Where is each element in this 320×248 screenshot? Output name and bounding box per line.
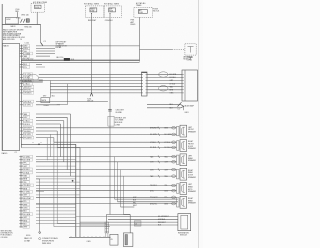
svg-text:SPEAKER: SPEAKER xyxy=(188,159,197,162)
inline connector symbol on W2 xyxy=(108,109,112,111)
fuse block F1 (top-left dashed box) xyxy=(31,4,44,13)
wire vertical drop x80 xyxy=(79,148,81,238)
svg-text:DK GRN: DK GRN xyxy=(164,134,171,136)
wire BLK to rear module xyxy=(80,224,178,226)
pin wire DK BLU speaker feed xyxy=(20,123,23,125)
connector C2 vertical box xyxy=(142,72,148,96)
svg-text:YEL/BLK: YEL/BLK xyxy=(24,131,32,133)
svg-text:YEL: YEL xyxy=(23,182,26,184)
pin B1 wire GRY/BLK to splice xyxy=(20,101,23,103)
wire LT BLU to amp connector xyxy=(20,83,23,85)
pin wire WHT lower connector xyxy=(19,226,23,228)
pin A3 wire YEL xyxy=(20,50,23,52)
svg-text:GROUND 150: GROUND 150 xyxy=(22,59,33,61)
pin wire LT BLU lower connector xyxy=(19,172,23,174)
svg-text:AUDIO AMP: AUDIO AMP xyxy=(185,105,195,108)
pin wire DK BLU lower connector xyxy=(19,168,23,170)
svg-text:SPLICE: SPLICE xyxy=(87,101,94,103)
wire DK GRN to amp connector xyxy=(20,73,23,75)
pin wire BRN lower connector xyxy=(19,178,23,180)
svg-text:SPEAKER: SPEAKER xyxy=(188,190,197,193)
twisted pair loop right upper xyxy=(159,72,168,77)
svg-text:LT GRN: LT GRN xyxy=(23,156,30,158)
svg-text:IN-LINE: IN-LINE xyxy=(116,112,123,114)
svg-text:DK BLU: DK BLU xyxy=(24,124,31,126)
wire ORG/BLK to amp connector xyxy=(20,92,23,94)
svg-text:FUSE: FUSE xyxy=(139,12,143,14)
wire bottom bus strip xyxy=(69,236,111,238)
wire DK GRN/WHT to rear module xyxy=(108,215,178,217)
svg-text:DETAIL: DETAIL xyxy=(56,46,62,49)
wire GRY/BLK C2 to amplifier xyxy=(147,80,182,82)
svg-text:LT GRN: LT GRN xyxy=(23,192,30,194)
wire bus vertical x117.5 xyxy=(117,162,119,202)
svg-text:BRN/YEL: BRN/YEL xyxy=(24,90,32,92)
svg-text:SPEAKER: SPEAKER xyxy=(188,130,197,133)
svg-text:SPEAKER: SPEAKER xyxy=(188,202,197,205)
pin wire YEL/BLK speaker feed xyxy=(20,130,23,132)
wire dashed antenna lead xyxy=(172,48,185,50)
svg-text:CONN: CONN xyxy=(187,59,193,61)
pin wire PPL lower connector xyxy=(19,200,23,202)
pin wire BLK/WHT lower connector xyxy=(19,197,23,199)
svg-text:AND SPLICES: AND SPLICES xyxy=(3,38,15,41)
svg-text:RED/WHT: RED/WHT xyxy=(158,222,166,224)
splice S201 arrow symbol xyxy=(90,93,91,96)
pin wire BLK lower connector xyxy=(19,210,23,212)
wire W3 from fuse C down xyxy=(139,17,141,61)
svg-text:HOT AT ALL TIMES: HOT AT ALL TIMES xyxy=(84,3,100,6)
wire branch v2 from LT BLU row down with elbow xyxy=(67,84,69,105)
speaker SP6 connector bar xyxy=(177,198,180,207)
pin wire BLK lower connector xyxy=(19,223,23,225)
wire bus out 2 xyxy=(118,201,178,203)
junction splice dot xyxy=(72,180,74,182)
wire ticks drop to bottom bus xyxy=(105,233,107,237)
wire amp ground branch 2 BLK xyxy=(147,107,181,109)
pin wire BRN/WHT speaker feed xyxy=(20,127,23,129)
wire BRN/YEL C2 to amplifier xyxy=(147,89,182,91)
svg-text:DK GRN/WHT: DK GRN/WHT xyxy=(158,216,169,218)
splice arrow below amp xyxy=(181,105,184,107)
wire elbow continuation x57.2 to bottom xyxy=(56,147,58,223)
svg-text:DK GRN: DK GRN xyxy=(24,74,32,76)
connector loop top wire SP4 xyxy=(172,168,176,171)
wire amp ground branch 1 BLK xyxy=(147,104,181,106)
svg-text:LT BLU: LT BLU xyxy=(23,172,30,174)
svg-text:RED 240: RED 240 xyxy=(24,26,31,28)
svg-text:DK GRN: DK GRN xyxy=(23,160,31,162)
connector loop top wire SP1 xyxy=(172,127,176,130)
ground distribution box G201 xyxy=(26,19,29,22)
svg-text:G301: G301 xyxy=(184,112,188,114)
pin wire TAN lower connector xyxy=(19,175,23,177)
svg-text:BLK 150: BLK 150 xyxy=(57,57,64,59)
wire heavy bus upper y60.2 xyxy=(21,59,139,61)
wire left page edge line xyxy=(1,4,3,151)
wire bus vertical x120.5 xyxy=(120,170,122,207)
wire main horizontal feed y24.5 xyxy=(2,24,40,26)
svg-text:RED/WHT: RED/WHT xyxy=(88,20,97,22)
pin wire BRN lower connector xyxy=(19,188,23,190)
twisted pair loop right lower xyxy=(159,86,168,91)
speaker SP5 connector bar xyxy=(177,184,180,193)
svg-text:GRY/BLK: GRY/BLK xyxy=(24,80,33,82)
svg-text:C1: C1 xyxy=(43,41,45,43)
svg-text:DK BLU: DK BLU xyxy=(23,169,30,171)
wire speaker 6 top long xyxy=(36,196,177,198)
wire elbow continuation x53.9 to bottom xyxy=(53,142,55,226)
svg-text:RADIO: RADIO xyxy=(3,44,9,47)
svg-text:PPL/WHT: PPL/WHT xyxy=(24,137,33,139)
speaker SP4 box xyxy=(180,168,187,180)
amplifier U2 box xyxy=(182,70,198,101)
wire BLK down to ground G200 xyxy=(36,178,40,180)
connector loop bottom wire SP2 xyxy=(172,146,176,149)
svg-text:HOT AT ALL TIMES: HOT AT ALL TIMES xyxy=(104,3,120,6)
rear integration module box xyxy=(178,214,191,231)
wire RED/WHT to rear module xyxy=(80,221,178,223)
speaker SP6 box xyxy=(180,196,187,208)
svg-text:DK GRN: DK GRN xyxy=(24,134,32,136)
wire speaker 5 bottom long xyxy=(36,190,177,192)
svg-text:PPL: PPL xyxy=(23,201,26,203)
svg-text:CONN: CONN xyxy=(115,124,121,126)
svg-text:YEL/BLK: YEL/BLK xyxy=(23,185,31,187)
wire W2 from fuse B down main vertical xyxy=(109,17,111,214)
wire branch vertical x50.5 xyxy=(50,134,52,157)
splice block S201 dark box xyxy=(64,58,70,60)
speaker SP3 connector bar xyxy=(177,155,180,164)
wire DK BLU to amp connector xyxy=(20,76,23,78)
speaker SP4 connector bar xyxy=(177,170,180,179)
connector symbol pair (slashes) C201 xyxy=(21,19,23,23)
connector ticks bottom left of loop xyxy=(105,222,109,233)
wire LT BLU C2 to amplifier xyxy=(147,83,182,85)
connector loop bottom wire SP3 xyxy=(172,161,176,164)
twisted pair shield loop xyxy=(28,74,38,81)
svg-text:BLK/WHT: BLK/WHT xyxy=(23,198,32,200)
wire TAN/WHT to amp connector xyxy=(20,86,23,88)
label gray box mid bottom xyxy=(134,221,141,226)
svg-text:ORG 140: ORG 140 xyxy=(21,15,29,17)
wire speaker 4 bottom long xyxy=(36,175,177,177)
connector loop bottom wire SP6 xyxy=(172,202,176,205)
wire bus out 4 xyxy=(124,214,131,216)
speaker SP5 box xyxy=(180,183,187,195)
svg-text:SPEAKER: SPEAKER xyxy=(188,176,197,179)
svg-text:BRN/WHT: BRN/WHT xyxy=(150,128,158,130)
svg-text:ORG: ORG xyxy=(23,208,28,210)
svg-text:C405: C405 xyxy=(87,241,91,243)
junction block box top-left xyxy=(6,17,19,24)
wire fuse F1 down drop xyxy=(36,12,38,24)
wire speaker 5 top long xyxy=(36,185,177,187)
wire DK BLU C2 to amplifier xyxy=(147,76,182,78)
svg-text:PPL: PPL xyxy=(24,67,27,69)
pin A2 wire ORG xyxy=(20,47,23,49)
wire loop bottom pi shape xyxy=(106,214,130,216)
svg-text:x: x xyxy=(33,142,34,144)
wire bus vertical x114.5 xyxy=(114,157,116,200)
pin wire LT GRN lower connector xyxy=(19,156,23,158)
wire fuse A drop xyxy=(91,14,93,18)
svg-text:LT BLU: LT BLU xyxy=(24,83,31,85)
svg-text:LT BLU: LT BLU xyxy=(24,120,31,122)
pin wire WHT lower connector xyxy=(19,204,23,206)
pin wire GRY speaker feed xyxy=(20,116,23,118)
fuse F1 xyxy=(34,5,41,8)
fuse F5 in box A xyxy=(90,8,97,12)
svg-text:JUNC: JUNC xyxy=(6,19,11,21)
svg-text:FEED: FEED xyxy=(131,24,136,26)
pin A7 wire xyxy=(20,66,23,68)
pin wire PPL lower connector xyxy=(19,162,23,164)
svg-text:14: 14 xyxy=(20,39,22,41)
radio unit U1 box outline xyxy=(2,44,19,151)
svg-text:TAN/WHT: TAN/WHT xyxy=(24,86,33,89)
svg-text:ORG: ORG xyxy=(170,93,175,95)
speaker SP2 box xyxy=(180,140,187,152)
wire branch vertical x47.2 xyxy=(46,138,48,161)
svg-text:DK GRN: DK GRN xyxy=(150,134,157,136)
svg-text:WIRE SIDE: WIRE SIDE xyxy=(42,243,52,245)
module box M2 bottom xyxy=(123,233,132,247)
svg-text:DK BLU: DK BLU xyxy=(170,77,177,79)
pin wire DK GRN lower connector xyxy=(19,159,23,161)
pin A6 wire BLK xyxy=(20,63,23,65)
wire DK GRN C2 to amplifier xyxy=(147,73,182,75)
wire speaker 6 bottom long xyxy=(36,203,177,205)
wire C100 drop to junction box xyxy=(17,12,19,17)
pin A4 wire LT GRN xyxy=(20,53,23,55)
pin wire PPL/WHT speaker feed xyxy=(20,137,23,139)
svg-text:ORG/BLK: ORG/BLK xyxy=(105,20,114,22)
wire speaker 2 top from elbow xyxy=(57,146,176,148)
pin A5 wire TAN xyxy=(20,55,23,57)
speaker SP3 box xyxy=(180,154,187,166)
connector loop top wire SP2 xyxy=(172,141,176,144)
svg-text:PPL: PPL xyxy=(133,202,136,204)
wire W3 branch right to antenna xyxy=(140,49,173,51)
wire BRN/YEL to amp connector xyxy=(20,89,23,91)
svg-text:LT BLU: LT BLU xyxy=(170,83,176,85)
page border right edge xyxy=(197,0,199,248)
svg-text:x: x xyxy=(41,142,42,144)
svg-text:GRY/BLK: GRY/BLK xyxy=(158,219,166,221)
svg-text:FUSE: FUSE xyxy=(109,10,113,12)
pin wire DK GRN speaker feed xyxy=(20,133,23,135)
connector loop bottom wire SP5 xyxy=(172,189,176,192)
svg-text:C 100: C 100 xyxy=(25,42,29,44)
wire GRY/BLK to rear module xyxy=(108,218,178,220)
svg-text:DK GRN: DK GRN xyxy=(24,105,32,107)
wire TAN/WHT C2 to amplifier xyxy=(147,86,182,88)
wire rows lower connector to module area xyxy=(36,204,76,206)
wire GRY/BLK to amp connector xyxy=(20,80,23,82)
svg-text:C 240: C 240 xyxy=(16,17,21,19)
svg-text:22 WAY: 22 WAY xyxy=(24,240,31,243)
pin wire DK GRN lower connector xyxy=(19,213,23,215)
wire bus out 3 xyxy=(121,206,135,208)
pin wire LT BLU speaker feed xyxy=(20,120,23,122)
pin wire LT GRN lower connector xyxy=(19,191,23,193)
speaker SP2 connector bar xyxy=(177,141,180,150)
in-line connector box C240 xyxy=(41,98,50,103)
wire stub rows lower connector xyxy=(36,159,76,161)
connector arrow to amplifier xyxy=(178,102,182,106)
svg-text:SPEAKER: SPEAKER xyxy=(188,147,197,150)
svg-text:DK GRN: DK GRN xyxy=(170,74,177,76)
wire speaker 2 bottom from elbow xyxy=(54,141,177,143)
wire fuse B drop xyxy=(109,14,111,18)
pin wire ORG lower connector xyxy=(19,207,23,209)
svg-text:RADIO: RADIO xyxy=(2,152,8,155)
svg-text:ORG/BLK: ORG/BLK xyxy=(24,93,33,95)
svg-text:TIMES: TIMES xyxy=(136,5,142,7)
connector loop bottom wire SP4 xyxy=(172,175,176,178)
pin A1 wire GRY xyxy=(20,45,23,47)
pin B2 wire DK GRN/WHT xyxy=(20,104,23,106)
svg-text:DK BLU: DK BLU xyxy=(24,77,31,79)
svg-text:G200: G200 xyxy=(26,235,30,237)
connector loop top wire SP6 xyxy=(172,196,176,199)
svg-text:GRY/BLK: GRY/BLK xyxy=(24,101,33,103)
pin wire GRY lower connector xyxy=(19,165,23,167)
wire heavy vertical drop x75.8 xyxy=(75,144,77,237)
wire branch v1 from GRY/BLK row down xyxy=(49,81,51,98)
wire bus vertical x123.5 xyxy=(123,176,125,214)
wire link verticals to module rows xyxy=(76,215,108,217)
svg-text:DK GRN: DK GRN xyxy=(23,214,31,216)
svg-text:BRN/WHT: BRN/WHT xyxy=(24,128,33,130)
wire speaker 3 top long xyxy=(36,156,177,158)
wire ORG/BLK C2 to amplifier xyxy=(147,92,182,94)
svg-text:FUSE: FUSE xyxy=(90,10,94,12)
highlighted pin label row xyxy=(21,80,43,83)
speaker SP1 box xyxy=(180,125,187,137)
wire heavy bus lower y62.7 xyxy=(21,62,139,64)
svg-text:MODULE: MODULE xyxy=(180,235,187,237)
module box M1 bottom xyxy=(110,234,118,245)
antenna module dashed box xyxy=(185,44,196,55)
connector arrow into C1 xyxy=(41,43,43,46)
pin wire GRY lower connector xyxy=(19,194,23,196)
connector loop top wire SP3 xyxy=(172,155,176,158)
svg-text:WHT: WHT xyxy=(133,205,137,207)
svg-text:OF G200: OF G200 xyxy=(1,237,8,239)
svg-text:C2: C2 xyxy=(15,152,17,154)
fuse F10 in box C xyxy=(138,10,147,14)
wire speaker 3 bottom long xyxy=(36,161,177,163)
svg-text:BLOCK: BLOCK xyxy=(153,11,160,13)
wire speaker 4 top long xyxy=(36,169,177,171)
wire W1 from fuse A down to splice xyxy=(91,17,93,93)
pin wire RED lower connector xyxy=(19,220,23,222)
connector loop top wire SP5 xyxy=(172,184,176,187)
connector loop bottom wire SP1 xyxy=(172,133,176,136)
connector C1 bracket line xyxy=(20,45,22,148)
wire from fuse junction down to connector C1 arrow xyxy=(40,25,42,43)
diamond marker bottom xyxy=(38,237,41,240)
pin wire GRY lower connector xyxy=(19,216,23,218)
speaker SP1 connector bar xyxy=(177,126,180,135)
pin wire YEL/BLK lower connector xyxy=(19,184,23,186)
pin wire YEL lower connector xyxy=(19,181,23,183)
svg-text:PPL: PPL xyxy=(23,163,26,165)
connector C3 bracket lower xyxy=(20,156,22,228)
fuse F8 in box B xyxy=(109,8,116,12)
note box on W2 xyxy=(108,116,114,126)
wire bus out 1 xyxy=(115,198,178,200)
svg-text:C1: C1 xyxy=(178,109,180,111)
wire heavy BLK y144.3 with junction xyxy=(21,143,76,145)
pin wire TAN speaker feed xyxy=(20,113,23,115)
